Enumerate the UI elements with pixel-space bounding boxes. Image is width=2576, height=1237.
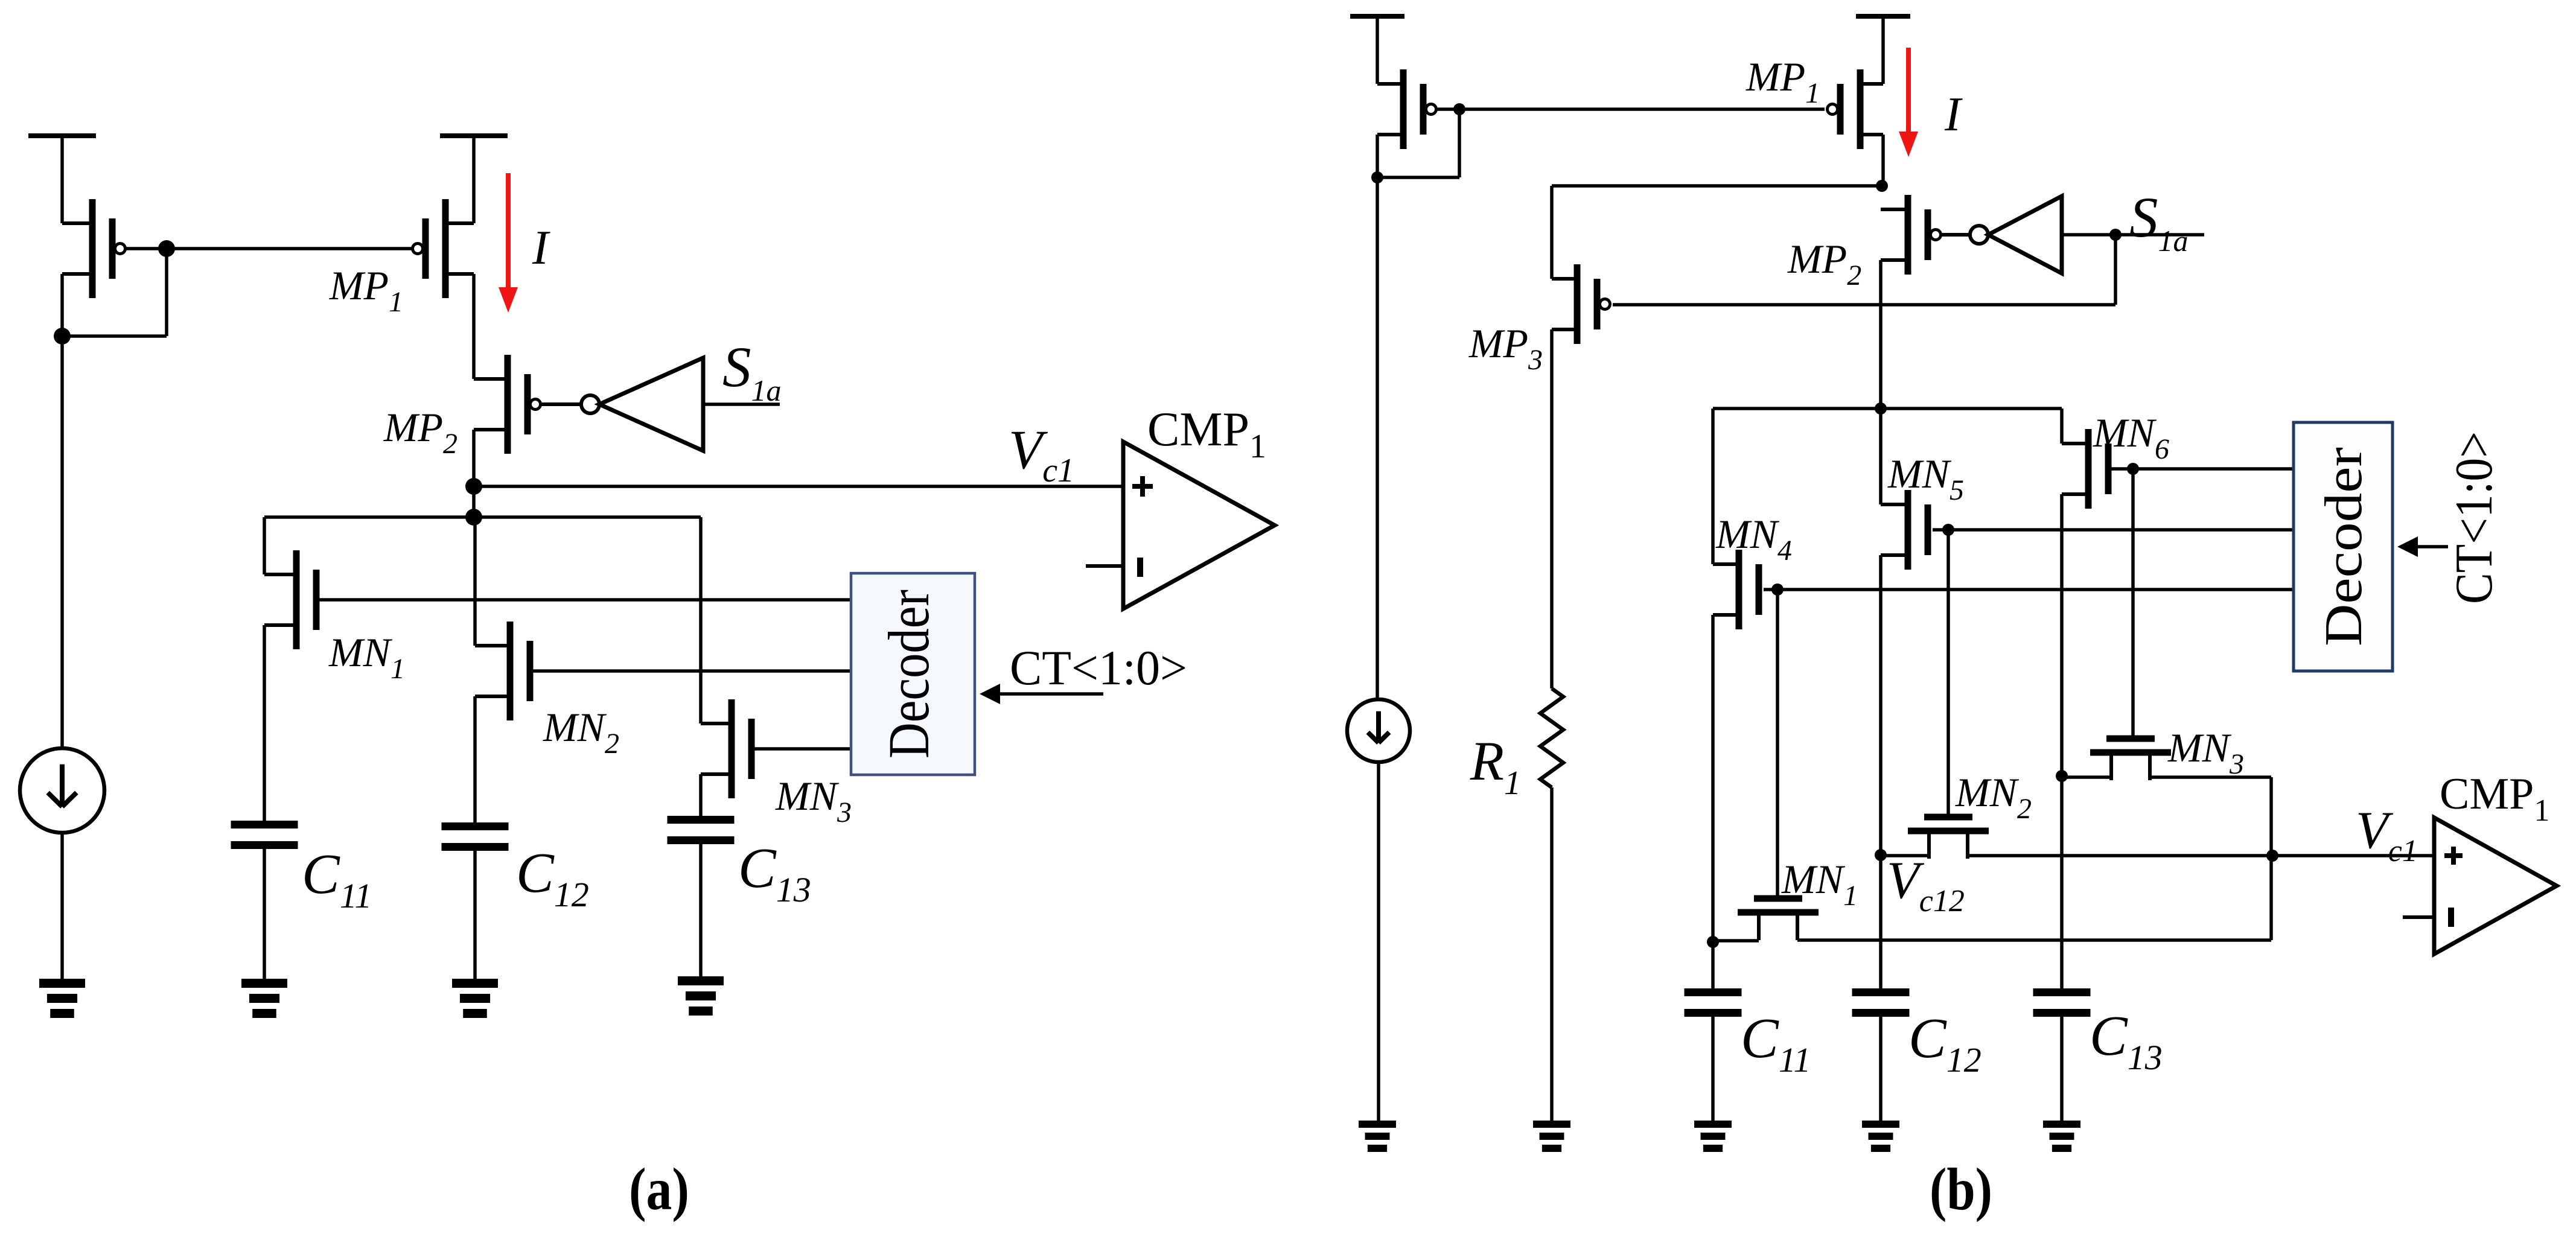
svg-text:Decoder: Decoder (2315, 447, 2373, 646)
svg-text:(a): (a) (629, 1156, 689, 1223)
svg-text:CT<1:0>: CT<1:0> (2445, 431, 2504, 604)
svg-text:CMP1: CMP1 (1147, 403, 1266, 465)
svg-text:Decoder: Decoder (876, 590, 941, 758)
svg-text:CT<1:0>: CT<1:0> (1010, 640, 1187, 695)
svg-text:(b): (b) (1930, 1156, 1992, 1223)
svg-text:I: I (1944, 88, 1963, 141)
svg-text:I: I (532, 221, 550, 275)
